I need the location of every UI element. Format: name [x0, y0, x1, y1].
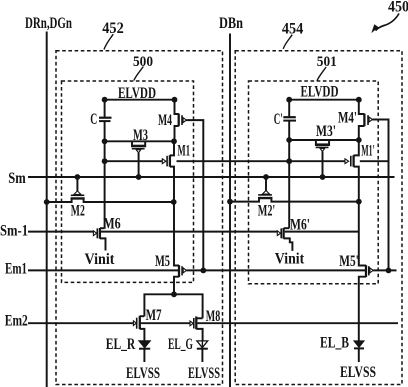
- diode EL_G: [197, 341, 208, 348]
- wire scan line Sm: [28, 176, 395, 178]
- svg-text:Vinit: Vinit: [85, 251, 116, 268]
- svg-text:M2: M2: [71, 202, 85, 219]
- wire scan line Sm-1: [28, 231, 94, 233]
- svg-text:M8: M8: [206, 308, 221, 325]
- wire M3 gate to Sm: [138, 153, 140, 177]
- junction data branch on M1' source column: [356, 199, 362, 205]
- transistor M2': [258, 197, 272, 199]
- svg-text:450: 450: [388, 0, 408, 16]
- wire emission line Em1: [28, 269, 178, 271]
- node storage node right (M3' drain line): [289, 139, 359, 141]
- svg-text:Em1: Em1: [5, 260, 27, 277]
- node storage node left (M3 drain line): [105, 140, 174, 142]
- svg-text:ELVSS: ELVSS: [340, 364, 376, 381]
- svg-text:Em2: Em2: [5, 312, 28, 329]
- transistor M5': [359, 202, 366, 266]
- leader line for 454: [283, 35, 292, 49]
- svg-text:EL_R: EL_R: [106, 336, 136, 353]
- svg-text:C': C': [274, 111, 283, 128]
- transistor M3: [132, 141, 145, 146]
- junction M2 gate on Sm: [75, 174, 81, 180]
- svg-text:M3': M3': [316, 123, 336, 140]
- junction rail right end: [172, 97, 178, 103]
- svg-text:M6': M6': [290, 216, 310, 233]
- junction M5 drain split: [171, 291, 177, 297]
- svg-text:454: 454: [282, 20, 304, 37]
- junction M3' drain on M4' drain column: [356, 137, 362, 143]
- diode EL_R: [139, 341, 151, 348]
- svg-text:M4': M4': [338, 109, 357, 126]
- junction M1 gate node left: [102, 158, 108, 164]
- junction M4 gate on Em1: [200, 268, 206, 274]
- transistor M4: [175, 100, 179, 114]
- svg-text:M2': M2': [258, 202, 276, 219]
- wire data line DRn,DGn: [46, 32, 48, 387]
- svg-text:M5: M5: [155, 253, 170, 270]
- wire ELVDD rail right: [289, 99, 359, 101]
- svg-text:DRn,DGn: DRn,DGn: [25, 15, 72, 32]
- transistor M5: [174, 202, 179, 266]
- junction M3 drain on M4 drain column: [171, 138, 177, 144]
- wire M4 gate to Em1: [186, 120, 203, 270]
- svg-text:M6: M6: [103, 216, 121, 233]
- junction M1' gate node right: [286, 158, 292, 164]
- junction rail left end: [102, 97, 108, 103]
- wire data line DBn: [229, 34, 231, 387]
- transistor M8: [197, 317, 202, 319]
- wire data branch left (through M2): [47, 199, 174, 202]
- svg-text:ELVSS: ELVSS: [188, 365, 220, 382]
- junction capacitor C bottom on node: [102, 138, 108, 144]
- svg-text:501: 501: [317, 54, 337, 70]
- junction M3' gate on Sm: [320, 174, 326, 180]
- junction M4' gate on Em1: [386, 268, 392, 274]
- diode EL_B: [354, 341, 364, 347]
- svg-text:EL_G: EL_G: [168, 336, 193, 353]
- wire M3' gate to Sm: [322, 152, 324, 178]
- transistor M6': [277, 231, 280, 236]
- wire data branch right (through M2'): [230, 198, 359, 201]
- node M1 gate line: [105, 160, 163, 162]
- leader line for 500: [134, 67, 144, 81]
- junction data branch on M1 source column: [171, 199, 177, 205]
- wire ELVDD rail left: [105, 99, 175, 101]
- leader line for 452: [104, 34, 113, 49]
- block 454 dashed box: [235, 51, 402, 385]
- junction data branch on DRn,DGn line: [44, 199, 50, 205]
- svg-text:M1': M1': [361, 143, 375, 160]
- svg-text:ELVSS: ELVSS: [126, 365, 160, 382]
- wire split rail to M7 and M8: [144, 294, 202, 318]
- svg-text:M4: M4: [158, 112, 172, 129]
- block 501 dashed box: [249, 81, 379, 284]
- transistor M6: [93, 231, 96, 236]
- junction M2' gate on Sm: [263, 174, 269, 180]
- svg-text:C: C: [90, 111, 97, 128]
- svg-text:DBn: DBn: [219, 15, 243, 32]
- block 452 dashed box: [56, 51, 223, 385]
- transistor M7: [140, 315, 145, 317]
- wire emission line Em2: [28, 322, 134, 324]
- block 500 dashed box: [62, 81, 194, 282]
- transistor M2: [71, 197, 85, 199]
- leader arrow for 450: [376, 14, 400, 31]
- svg-text:Sm-1: Sm-1: [0, 223, 28, 240]
- transistor M4': [359, 100, 365, 114]
- junction M3 gate on Sm: [136, 174, 142, 180]
- wire M4' gate to Em1: [372, 120, 388, 271]
- transistor M3': [316, 140, 329, 145]
- leader line for 501: [317, 67, 326, 81]
- svg-text:M7: M7: [146, 307, 162, 324]
- svg-text:M1: M1: [178, 143, 191, 160]
- capacitor C': [288, 100, 290, 117]
- junction rail right cell left end: [286, 97, 292, 103]
- capacitor C: [104, 100, 106, 117]
- svg-text:ELVDD: ELVDD: [301, 84, 339, 101]
- svg-text:M5': M5': [339, 253, 359, 270]
- transistor M1': [345, 159, 349, 164]
- junction rail right cell right end: [356, 97, 362, 103]
- wire M2' gate to Sm: [265, 177, 267, 191]
- transistor M1: [162, 159, 166, 164]
- svg-text:Vinit: Vinit: [275, 250, 305, 267]
- svg-text:Sm: Sm: [8, 170, 26, 187]
- junction data branch on DBn line: [227, 199, 233, 205]
- junction capacitor C' bottom on node: [286, 137, 292, 143]
- svg-text:M3: M3: [133, 127, 148, 144]
- wire M2 gate to Sm: [76, 177, 78, 191]
- svg-text:EL_B: EL_B: [320, 334, 349, 351]
